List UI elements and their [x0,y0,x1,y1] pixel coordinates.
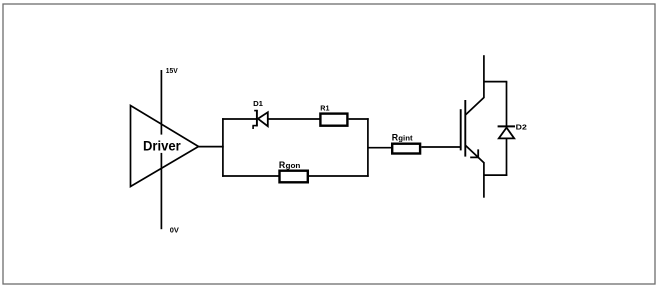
wire top rail right segment [349,118,369,120]
wire loop right edge [367,118,369,177]
wire loop left edge [222,118,224,177]
svg-text:R1: R1 [320,104,330,113]
wire Rgint to gate [421,146,460,148]
resistor R1 [320,114,347,126]
wire driver output to loop [199,146,224,148]
wire top rail left segment [222,118,256,120]
wire 15V rail [160,70,162,135]
diode D1 (zener, cathode left) [252,110,267,129]
wire collector diagonal [466,97,485,115]
wire bottom rail left segment [222,175,279,177]
wire D2 cathode lead [506,82,508,126]
diode D2 (freewheeling, cathode up) [498,126,515,138]
svg-text:Driver: Driver [143,137,181,153]
wire D2 anode lead [506,138,508,176]
resistor Rgint [392,144,420,154]
wire loop output to Rgint [368,147,392,149]
transistor Q1 IGBT body bar [464,100,466,157]
wire top rail middle segment [268,118,320,120]
transistor Q1 IGBT gate bar [460,109,462,150]
wire emitter branch to D2 [484,174,507,176]
resistor Rgon [280,171,308,183]
emitter arrow [470,149,478,157]
svg-text:15V: 15V [166,66,179,75]
svg-text:D1: D1 [253,99,264,108]
driver U1 (amplifier triangle) [131,106,199,187]
svg-text:D2: D2 [516,123,527,132]
wire bottom rail right segment [309,175,369,177]
wire 0V rail [160,153,162,229]
svg-text:0V: 0V [170,225,180,234]
svg-text:gint: gint [398,134,413,143]
svg-text:gon: gon [286,161,301,170]
wire emitter terminal [483,162,485,197]
wire emitter diagonal [466,146,485,164]
wire collector terminal [483,55,485,98]
wire collector branch to D2 [484,81,507,83]
